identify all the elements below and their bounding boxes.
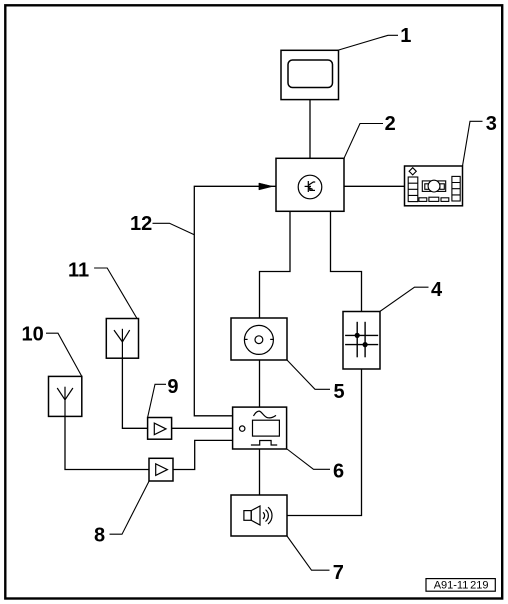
svg-text:6: 6 (333, 460, 344, 482)
svg-text:9: 9 (167, 376, 178, 398)
svg-text:7: 7 (333, 562, 344, 584)
svg-text:10: 10 (22, 323, 44, 345)
svg-text:8: 8 (94, 525, 105, 547)
svg-text:3: 3 (486, 113, 497, 135)
svg-text:2: 2 (385, 113, 396, 135)
svg-text:A91-11219: A91-11219 (434, 580, 489, 592)
svg-text:4: 4 (431, 279, 443, 301)
svg-text:1: 1 (400, 25, 411, 47)
svg-text:5: 5 (334, 381, 345, 403)
svg-text:11: 11 (68, 259, 89, 281)
svg-text:12: 12 (130, 213, 152, 235)
